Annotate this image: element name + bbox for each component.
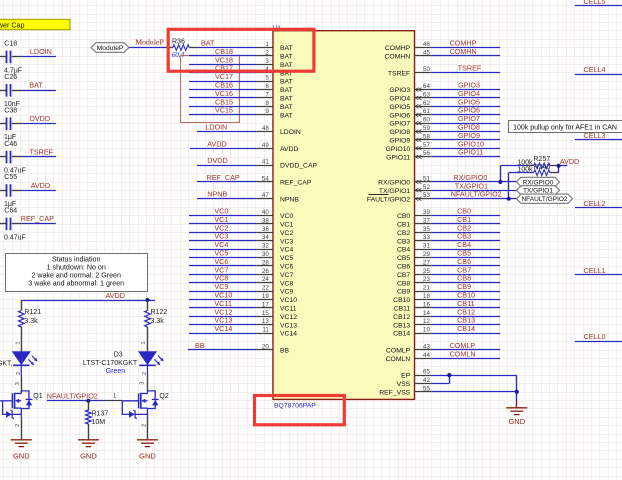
pin 17 VC11 (left) [257,307,273,309]
junction R122 [145,298,149,302]
wire net CB18 [189,55,257,57]
svg-text:CELL1: CELL1 [584,266,606,275]
pin 41 DVDD_CAP (left) [257,165,273,167]
svg-text:AVDD: AVDD [280,146,298,153]
wire net VC18 [189,64,257,66]
pin 12 CB13 (right) [415,324,432,326]
svg-text:61: 61 [423,108,430,115]
wire net NPNB [197,198,257,200]
svg-text:REF_CAP: REF_CAP [21,214,54,223]
svg-text:27: 27 [423,259,430,266]
svg-text:50: 50 [423,66,430,73]
svg-text:VC6: VC6 [280,264,293,271]
resistor R137 [88,401,90,410]
pin 20 BB (left) [257,349,273,351]
svg-text:59: 59 [423,125,430,132]
svg-text:C38: C38 [4,107,17,114]
wire ModuleP [129,47,165,49]
svg-text:VC1: VC1 [280,222,293,229]
svg-text:63: 63 [423,91,430,98]
svg-text:55: 55 [423,385,430,392]
wire net VC7 [189,274,257,276]
svg-text:12: 12 [423,318,430,325]
wire net REF_CAP [197,181,257,183]
pin 13 VC13 (left) [257,324,273,326]
svg-text:19: 19 [262,293,269,300]
svg-text:COMLN: COMLN [386,356,411,363]
wire net DVDD [197,165,257,167]
wire AVDD rail [21,300,155,302]
svg-text:10: 10 [423,327,430,334]
pin 22 VC9 (left) [257,291,273,293]
ground GND (Q2) [137,440,158,447]
ground GND (Q1) [11,440,32,447]
svg-text:5: 5 [265,75,269,82]
wire net CB12 [431,316,500,318]
svg-text:DVDD: DVDD [207,156,227,165]
wire net DVDD [22,123,56,125]
svg-text:GPIO11: GPIO11 [458,148,483,157]
wire net VC9 [189,291,257,293]
capacitor C55 [0,190,6,192]
svg-text:2 wake and normal: 2 Green: 2 wake and normal: 2 Green [31,271,121,279]
svg-text:R122: R122 [151,309,168,316]
svg-text:2: 2 [265,49,269,56]
svg-text:VC4: VC4 [280,247,293,254]
svg-text:CB3: CB3 [397,238,410,245]
pin 56 GPIO11 (right) [415,156,432,158]
pin 61 GPIO6 (right) [415,114,432,116]
svg-text:29: 29 [423,251,430,258]
pin 16 CB11 (right) [415,307,432,309]
svg-text:CB7: CB7 [397,272,410,279]
svg-text:CELL2: CELL2 [584,199,606,208]
pin 60 GPIO7 (right) [415,123,432,125]
pin 18 CB10 (right) [415,299,432,301]
highlight box around R36/BAT pins [168,29,314,71]
junction NFAULT [507,197,511,201]
junction AVDD [557,164,561,168]
svg-text:COMHN: COMHN [385,54,411,61]
pin 45 COMHN (right) [415,55,432,57]
pin 27 CB6 (right) [415,265,432,267]
svg-text:LDOIN: LDOIN [280,129,301,136]
pin 7 BAT (left) [257,97,273,99]
svg-text:44: 44 [423,352,430,359]
pin 11 VC14 (left) [257,333,273,335]
svg-text:VC14: VC14 [280,331,297,338]
svg-text:2: 2 [16,372,22,375]
wire net CB2 [431,232,500,234]
svg-text:31: 31 [423,243,430,250]
pin 19 VC10 (left) [257,299,273,301]
svg-text:18: 18 [423,293,430,300]
svg-text:1: 1 [16,341,22,344]
wire net VC17 [189,81,257,83]
svg-text:6: 6 [265,83,269,90]
svg-text:GND: GND [139,451,156,460]
wire net CB10 [431,299,500,301]
svg-text:28: 28 [262,259,269,266]
pin 6 BAT (left) [257,89,273,91]
wire net CB9 [431,291,500,293]
wire net GPIO11 [431,156,500,158]
pin 10 CB14 (right) [415,333,432,335]
svg-text:23: 23 [423,276,430,283]
wire net CB1 [431,223,500,225]
pin 54 REF_CAP (left) [257,181,273,183]
pin 1 BAT (left) [257,47,273,49]
wire NFAULT/GPIO2 [47,400,105,402]
svg-text:CELL3: CELL3 [584,131,606,140]
note box status indication [6,254,148,292]
wire net GPIO8 [431,131,500,133]
svg-text:REF_VSS: REF_VSS [379,390,410,397]
svg-text:GND: GND [508,417,525,426]
svg-text:BQ78706PAP: BQ78706PAP [274,402,316,409]
svg-text:VC10: VC10 [280,297,297,304]
wire net VC3 [189,240,257,242]
svg-text:16: 16 [423,301,430,308]
capacitor C26 [0,90,6,92]
resistor R36 [165,47,173,49]
svg-text:7: 7 [265,91,269,98]
svg-text:CB14: CB14 [457,324,475,333]
ground GND (R137) [78,440,99,447]
svg-text:GPIO9: GPIO9 [389,138,410,145]
wire net GPIO10 [431,148,500,150]
pin 35 CB2 (right) [415,232,432,234]
svg-text:NFAULT/GPIO2: NFAULT/GPIO2 [451,190,502,199]
pin 34 VC3 (left) [257,240,273,242]
wire net VC6 [189,265,257,267]
svg-text:VC5: VC5 [280,255,293,262]
wire VSS up [431,383,449,385]
svg-text:8: 8 [265,100,269,107]
svg-text:AVDD: AVDD [106,291,125,300]
wire net AVDD [190,148,257,150]
svg-text:54: 54 [262,175,269,182]
svg-text:47: 47 [262,192,269,199]
svg-text:42: 42 [423,377,430,384]
note box 100k pullup [509,121,622,133]
wire REF_VSS [431,391,517,393]
svg-text:9: 9 [265,108,269,115]
svg-text:43: 43 [423,343,430,350]
blanket directive rectangle [181,56,240,123]
pin 53 FAULT/GPIO2 (right) [415,198,432,200]
wire net CB14 [431,333,500,335]
svg-text:ModuleP: ModuleP [135,37,164,46]
wire net CELL5 [575,5,622,7]
svg-text:33: 33 [423,234,430,241]
svg-text:D3: D3 [114,352,123,359]
svg-text:LTST-C170KGKT: LTST-C170KGKT [83,360,138,367]
svg-text:VC7: VC7 [280,272,293,279]
svg-text:15: 15 [262,310,269,317]
highlight box around BQ78706PAP [255,396,345,425]
svg-text:NPNB: NPNB [207,190,227,199]
wire net LDOIN [22,56,56,58]
svg-text:35: 35 [423,226,430,233]
svg-text:GKT,: GKT, [0,361,13,368]
wire net GPIO3 [431,89,500,91]
svg-text:VC3: VC3 [280,238,293,245]
port NFAULT/GPIO2 [517,194,573,203]
svg-text:10M: 10M [92,419,106,426]
svg-text:NFAULT/GPIO2: NFAULT/GPIO2 [47,391,98,400]
svg-text:C26: C26 [4,74,17,81]
wire net BAT [22,90,56,92]
svg-text:2: 2 [141,424,147,427]
wire net CELL1 [575,274,622,276]
pin 36 VC2 (left) [257,232,273,234]
svg-text:EP: EP [401,373,411,380]
svg-text:58: 58 [423,133,430,140]
pin 24 VC8 (left) [257,282,273,284]
svg-text:VC15: VC15 [215,106,233,115]
svg-text:VC13: VC13 [280,322,297,329]
svg-text:R121: R121 [24,309,41,316]
svg-text:1: 1 [141,341,147,344]
svg-text:CB8: CB8 [397,280,410,287]
svg-text:2: 2 [15,424,21,427]
svg-text:60: 60 [423,117,430,124]
wire net VC14 [189,333,257,335]
wire net GPIO4 [431,97,500,99]
svg-text:CB1: CB1 [397,222,410,229]
wire net CB0 [431,215,500,217]
wire net VC15 [189,114,257,116]
svg-text:RX/GPIO0: RX/GPIO0 [378,180,410,187]
pin 28 VC6 (left) [257,265,273,267]
wire net CB4 [431,249,500,251]
svg-text:VC2: VC2 [280,230,293,237]
wire BAT [197,47,257,49]
wire net CB16 [189,89,257,91]
wire net CELL4 [575,74,622,76]
svg-text:48: 48 [262,125,269,132]
svg-text:CELL5: CELL5 [584,0,606,6]
svg-text:VC11: VC11 [280,306,297,313]
port RX/GPIO0 [517,177,560,186]
svg-text:VSS: VSS [397,381,411,388]
junction RX [498,180,502,184]
svg-text:GPIO4: GPIO4 [389,96,410,103]
svg-text:BAT: BAT [280,87,293,94]
wire net CELL2 [575,207,622,209]
transistor Q1 [21,376,23,391]
svg-text:GPIO3: GPIO3 [389,87,410,94]
svg-text:C18: C18 [4,41,17,48]
svg-text:TX/GPIO1: TX/GPIO1 [379,188,411,195]
port ModuleP [91,43,129,53]
svg-text:COMLN: COMLN [450,349,476,358]
pin 38 VC1 (left) [257,223,273,225]
pin 44 COMLN (right) [415,358,432,360]
svg-text:AVDD: AVDD [207,139,226,148]
wire net GPIO6 [431,114,500,116]
svg-text:26: 26 [262,268,269,275]
svg-text:51: 51 [423,175,430,182]
svg-text:CB11: CB11 [394,306,411,313]
resistor R122 [147,300,149,311]
svg-text:38: 38 [262,217,269,224]
svg-text:46: 46 [423,41,430,48]
wire to GND [516,392,518,401]
pin 3 BAT (left) [257,64,273,66]
wire net CB15 [189,106,257,108]
svg-text:BAT: BAT [201,38,215,47]
wire net CB8 [431,282,500,284]
yellow note box 'Power Cap' [0,19,70,29]
svg-text:BAT: BAT [29,81,43,90]
svg-text:3: 3 [265,58,269,65]
wire net BB [188,349,257,351]
svg-text:3 wake and abnormal: 1 green: 3 wake and abnormal: 1 green [28,279,124,287]
pin 31 CB4 (right) [415,249,432,251]
svg-text:34: 34 [262,234,269,241]
svg-text:49: 49 [262,142,269,149]
svg-text:GND: GND [13,451,30,460]
svg-text:Green: Green [106,368,126,375]
svg-text:GPIO11: GPIO11 [386,154,410,161]
svg-text:Power Cap: Power Cap [0,20,25,29]
wire net REF_CAP [22,223,56,225]
svg-text:CB4: CB4 [397,247,410,254]
svg-text:BAT: BAT [280,54,293,61]
svg-text:BAT: BAT [280,79,293,86]
svg-text:REF_CAP: REF_CAP [207,173,240,182]
svg-text:VC12: VC12 [280,314,297,321]
wire net COMLN [431,358,500,360]
svg-text:65: 65 [423,369,430,376]
pin 25 CB7 (right) [415,274,432,276]
svg-text:AVDD: AVDD [31,181,50,190]
pin 32 VC4 (left) [257,249,273,251]
wire net GPIO5 [431,106,500,108]
resistor R121 [21,300,23,311]
wire net CB13 [431,324,500,326]
pin 21 CB9 (right) [415,291,432,293]
svg-text:1: 1 [265,41,269,48]
pin 9 BAT (left) [257,114,273,116]
svg-text:ModuleP: ModuleP [97,45,124,52]
wire net AVDD [22,190,56,192]
wire net CB11 [431,307,500,309]
svg-text:NPNB: NPNB [280,196,299,203]
pin 4 BAT (left) [257,72,273,74]
svg-text:CB9: CB9 [397,289,410,296]
svg-text:CB14: CB14 [393,331,410,338]
wire net LDOIN [197,131,257,133]
pin 55 REF_VSS (right) [415,391,432,393]
pin 23 CB8 (right) [415,282,432,284]
svg-text:GPIO6: GPIO6 [389,112,410,119]
wire EP [431,375,517,377]
svg-text:CB5: CB5 [397,255,410,262]
capacitor C64 [0,223,6,225]
svg-text:R257: R257 [534,156,551,163]
svg-text:BAT: BAT [280,96,293,103]
svg-text:BAT: BAT [280,112,293,119]
wire net GPIO9 [431,139,500,141]
svg-text:0.47uF: 0.47uF [4,234,26,241]
pin 30 VC5 (left) [257,257,273,259]
svg-text:22: 22 [262,285,269,292]
svg-text:25: 25 [423,268,430,275]
pin 2 BAT (left) [257,55,273,57]
pin 37 CB1 (right) [415,223,432,225]
capacitor C46 [0,156,6,158]
svg-text:COMLP: COMLP [386,348,411,355]
svg-text:VC8: VC8 [280,280,293,287]
svg-text:24: 24 [262,276,269,283]
svg-text:CB10: CB10 [393,297,410,304]
svg-text:BAT: BAT [280,104,293,111]
svg-text:CELL4: CELL4 [584,65,606,74]
pin 40 VC0 (left) [257,215,273,217]
svg-text:39: 39 [423,209,430,216]
pin 64 GPIO3 (right) [415,89,432,91]
pin 63 GPIO4 (right) [415,97,432,99]
pin 33 CB3 (right) [415,240,432,242]
svg-text:1 shutdown: No on: 1 shutdown: No on [47,264,106,272]
svg-text:45: 45 [423,49,430,56]
wire net VC8 [189,282,257,284]
svg-text:CB0: CB0 [397,213,410,220]
IC U1 BQ78706PAP body [273,31,415,400]
svg-text:CB13: CB13 [393,322,410,329]
svg-text:40: 40 [262,209,269,216]
svg-text:Status indiation: Status indiation [52,256,101,264]
svg-text:REF_CAP: REF_CAP [280,180,312,187]
svg-text:52: 52 [423,184,430,191]
wire net CB6 [431,265,500,267]
svg-text:BB: BB [280,348,290,355]
svg-text:GPIO10: GPIO10 [386,146,411,153]
transistor Q2 [147,376,149,391]
svg-text:3.3k: 3.3k [151,318,165,325]
wire net COMHP [431,47,500,49]
svg-text:37: 37 [423,217,430,224]
svg-text:CB2: CB2 [397,230,410,237]
pin 58 GPIO9 (right) [415,139,432,141]
pin 49 AVDD (left) [257,148,273,150]
svg-text:NFAULT/GPIO2: NFAULT/GPIO2 [521,196,567,203]
svg-text:VC9: VC9 [280,289,293,296]
svg-text:21: 21 [423,285,430,292]
wire pullup NFAULT vertical [508,173,510,199]
wire net VC16 [189,97,257,99]
pin 52 TX/GPIO1 (right) [415,190,432,192]
svg-text:GPIO5: GPIO5 [389,104,410,111]
junction R137 [86,399,90,403]
svg-text:3: 3 [15,382,21,385]
svg-text:32: 32 [262,243,269,250]
wire net COMLP [431,349,500,351]
ground GND (IC) [516,401,518,408]
wire net VC5 [189,257,257,259]
svg-text:TSREF: TSREF [458,64,482,73]
svg-text:TSREF: TSREF [388,70,410,77]
wire net VC4 [189,249,257,251]
svg-text:Q1: Q1 [33,393,42,400]
pin 29 CB5 (right) [415,257,432,259]
wire net GPIO7 [431,123,500,125]
LED D3 [139,352,157,365]
svg-text:62: 62 [423,100,430,107]
